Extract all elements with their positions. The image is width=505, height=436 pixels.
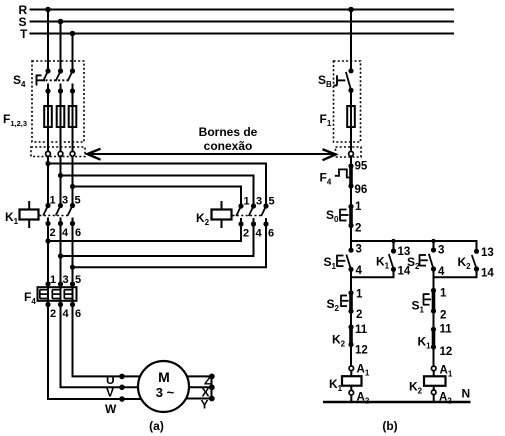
- switch SB manual actuator: [334, 75, 346, 85]
- node 12 (K1 NC bottom): [431, 344, 436, 349]
- aux contact K1 13-14 (NO): [391, 248, 396, 253]
- svg-text:5: 5: [75, 195, 81, 207]
- terminal L1: [46, 151, 51, 156]
- svg-text:T: T: [20, 27, 28, 41]
- node F4 pole3 top: [70, 281, 75, 286]
- svg-text:V: V: [106, 386, 114, 400]
- wire pole3 switch to fuse to terminal: [72, 91, 74, 187]
- junction node K2 return on L3: [70, 265, 75, 270]
- wire A2 to N: [350, 395, 352, 402]
- wire F4 to motor terminal V: [61, 305, 147, 388]
- terminal L3: [70, 151, 75, 156]
- node 2 (S1 NC bottom): [431, 308, 436, 313]
- node F4 pole3 bottom: [70, 302, 75, 307]
- svg-text:N: N: [462, 387, 471, 401]
- S2 plunger (right): [420, 254, 428, 266]
- wire pole2 switch to fuse to terminal: [60, 91, 62, 176]
- motor terminal U node: [119, 374, 125, 380]
- switch SB: [346, 68, 354, 93]
- node F4 pole1 top: [45, 281, 50, 286]
- svg-text:1: 1: [50, 274, 56, 286]
- S0 plunger: [340, 209, 349, 221]
- svg-text:2: 2: [50, 308, 56, 320]
- wire L1 terminal to K1 contact: [47, 164, 49, 206]
- node 4 (right branch): [431, 266, 436, 271]
- node 96: [348, 183, 353, 188]
- node branch L1 to K2: [45, 161, 50, 166]
- F4 heater element pole 3: [64, 290, 71, 299]
- annotation arrow Bornes de conexao: [87, 149, 335, 161]
- svg-text:2: 2: [243, 228, 249, 240]
- node 2 (S2 NC bottom): [348, 309, 353, 314]
- motor terminal W node: [119, 396, 125, 402]
- star bridge node Y: [209, 396, 215, 402]
- star bridge node Z: [209, 374, 215, 380]
- contactor K1 main contact pole 2: [56, 203, 63, 226]
- wire node4 down to S2: [350, 269, 352, 293]
- node F4 pole2 top: [58, 281, 63, 286]
- terminal A2 (K1 coil): [349, 390, 354, 395]
- junction node on rail T (phase 3 tap): [70, 31, 76, 37]
- node 1 (S0 top): [348, 204, 353, 209]
- wire SB to fuse F1 to terminal: [350, 90, 352, 166]
- switch S4 pole 3: [68, 68, 75, 93]
- svg-text:12: 12: [440, 346, 453, 358]
- svg-text:14: 14: [481, 268, 494, 280]
- power rail T: [30, 33, 455, 35]
- svg-text:1: 1: [356, 289, 363, 301]
- coil K2: [424, 376, 446, 386]
- terminal A1 (K2 coil): [431, 366, 436, 371]
- svg-text:3: 3: [356, 244, 362, 256]
- svg-text:6: 6: [75, 227, 81, 239]
- switch S4 manual actuator and linkage: [37, 75, 70, 86]
- motor M 3~: [138, 361, 189, 412]
- enclosure box (right, switch+fuse) dotted: [334, 61, 361, 142]
- wire A2 to N (right): [433, 395, 435, 402]
- interlock button S1 (NC, right branch): [432, 290, 436, 311]
- svg-text:1: 1: [355, 201, 362, 213]
- node 3 (right branch): [431, 247, 436, 252]
- node 11 (K1 NC top): [431, 327, 436, 332]
- svg-text:3 ~: 3 ~: [156, 385, 175, 400]
- star bridge node X: [209, 384, 215, 390]
- svg-text:Y: Y: [201, 398, 209, 412]
- wire motor to star-bridge Z: [180, 375, 212, 377]
- svg-text:3: 3: [62, 195, 68, 207]
- wire node4 down to S1 (right): [433, 269, 435, 290]
- wire 96 to S0: [350, 186, 352, 207]
- coil K1: [342, 376, 362, 386]
- S1 plunger: [337, 255, 345, 267]
- node 1 (S2 NC top): [348, 290, 353, 295]
- wire phase L1 drop from R to switch S4: [47, 10, 49, 72]
- stop button S0 (NC): [349, 207, 353, 226]
- switch S4 pole 1: [43, 68, 50, 93]
- svg-text:4: 4: [63, 308, 70, 320]
- svg-text:1: 1: [244, 196, 250, 208]
- contactor K2 main contact pole 1: [236, 203, 243, 226]
- power rail R: [30, 9, 455, 11]
- overload relay F4 body: [38, 287, 77, 301]
- svg-text:4: 4: [356, 265, 363, 277]
- svg-text:5: 5: [269, 196, 275, 208]
- wire L3 terminal to K1 contact: [72, 187, 74, 206]
- aux contact K2 13-14 (NO): [474, 249, 479, 254]
- fuse F1 (control): [347, 106, 355, 127]
- wire K2 aux rejoin: [434, 269, 477, 277]
- svg-text:2: 2: [440, 310, 446, 322]
- fuse F3 (pole 3): [69, 106, 77, 127]
- interlock button S2 (NC): [349, 293, 353, 311]
- wire coil K2 to A2: [433, 386, 435, 390]
- wire K2 pin2 return to L1: [48, 224, 241, 241]
- contactor K1 main contact pole 1: [43, 203, 50, 226]
- node 95: [348, 163, 353, 168]
- node 2 (S0 bottom): [348, 223, 353, 228]
- node branch L2 to K2: [58, 173, 63, 178]
- svg-text:M: M: [158, 369, 170, 385]
- wire K2 interlock to coil K1: [350, 345, 352, 367]
- wire K1 pole3 down to overload F4: [72, 224, 74, 285]
- svg-text:95: 95: [355, 161, 368, 173]
- fuse F1 (pole 1): [44, 106, 52, 127]
- start button S2 (NO, right branch): [429, 254, 434, 269]
- svg-text:6: 6: [75, 308, 81, 320]
- wire S2 to K2 interlock: [350, 311, 352, 327]
- svg-text:2: 2: [50, 227, 56, 239]
- contactor K2 main contact pole 2: [249, 203, 256, 226]
- wire pole1 switch to fuse to terminal: [47, 91, 49, 164]
- terminal strip (right) dotted: [336, 147, 362, 157]
- junction node on rail R (phase 1 tap): [45, 7, 51, 13]
- switch S4 pole 2: [56, 68, 63, 93]
- terminal L2: [58, 151, 63, 156]
- node 1 (S1 NC top): [431, 288, 436, 293]
- node 11 (K2 NC top): [348, 324, 353, 329]
- wire K2 pin4 return to L2: [61, 224, 254, 256]
- svg-text:3: 3: [438, 245, 444, 257]
- svg-text:6: 6: [268, 228, 274, 240]
- wire K1 pole2 down to overload F4: [60, 224, 62, 285]
- wire L1 to K2 contact 5: [48, 164, 266, 207]
- F4 heater element pole 2: [52, 290, 59, 299]
- svg-text:2: 2: [356, 309, 362, 321]
- node F4 pole2 bottom: [58, 302, 63, 307]
- wires through overload F4: [48, 284, 73, 305]
- svg-text:5: 5: [75, 274, 81, 286]
- svg-text:11: 11: [440, 324, 453, 336]
- interlock contact K2 11-12 (NC): [349, 327, 353, 345]
- wire motor to star-bridge Y: [180, 398, 212, 400]
- wire phase L3 drop from T to switch S4: [72, 34, 74, 72]
- wire L3 to K2 contact 1: [73, 187, 242, 207]
- svg-text:3: 3: [63, 274, 69, 286]
- wire L2 to K2 contact 3: [61, 176, 254, 207]
- wire phase L2 drop from S to switch S4: [60, 22, 62, 72]
- wire K1 aux rejoin: [351, 269, 394, 277]
- svg-text:1: 1: [50, 195, 56, 207]
- svg-text:13: 13: [481, 247, 494, 259]
- power rail S: [30, 21, 455, 23]
- node 4 (left branch): [348, 267, 353, 272]
- svg-text:4: 4: [62, 227, 69, 239]
- bus junction at K1 aux: [391, 239, 395, 243]
- neutral rail N: [323, 401, 471, 403]
- stub bus to right branch: [433, 241, 435, 250]
- svg-text:conexão: conexão: [204, 139, 253, 153]
- wire K1 interlock to coil K2: [433, 347, 435, 366]
- junction node on rail S (phase 2 tap): [58, 19, 64, 25]
- wire L2 terminal to K1 contact: [60, 176, 62, 206]
- wire A1 to coil K2: [433, 371, 435, 376]
- interlock contact K1 11-12 (NC): [432, 329, 436, 347]
- wire motor to star-bridge X: [182, 386, 212, 388]
- contactor K1 main contact pole 3: [68, 203, 75, 226]
- wire coil to A2: [350, 386, 352, 390]
- F4 trip actuator: [335, 169, 351, 177]
- contactor K2 actuator: [212, 201, 264, 228]
- svg-text:4: 4: [438, 266, 445, 278]
- motor terminal V node: [119, 385, 125, 391]
- terminal A1 (K1 coil): [349, 366, 354, 371]
- svg-text:2: 2: [355, 223, 361, 235]
- wire S1 to K1 interlock: [433, 311, 435, 329]
- terminal strip (left) dotted: [31, 147, 85, 157]
- node 12 (K2 NC bottom): [348, 342, 353, 347]
- svg-text:(b): (b): [382, 419, 397, 433]
- junction node on rail R (control circuit tap): [348, 7, 354, 13]
- contactor K1 actuator: [20, 201, 71, 228]
- wire control drop from R to switch SB: [350, 10, 352, 71]
- star point bridge wire: [211, 376, 213, 398]
- start button S1 (NO): [346, 255, 351, 270]
- contactor K2 main contact pole 3: [261, 203, 268, 226]
- terminal (control): [349, 151, 354, 156]
- svg-text:(a): (a): [149, 419, 164, 433]
- svg-text:96: 96: [355, 184, 368, 196]
- fuse F2 (pole 2): [57, 106, 65, 127]
- svg-text:1: 1: [440, 288, 447, 300]
- junction node K2 return on L2: [58, 253, 63, 258]
- terminal A2 (K2 coil): [431, 390, 436, 395]
- enclosure box (left, switch+fuses) dotted: [32, 61, 84, 142]
- node 3 (left branch): [348, 248, 353, 253]
- svg-text:11: 11: [355, 324, 368, 336]
- overload contact F4 95-96 (NC): [349, 166, 353, 186]
- wire A1 to coil: [350, 371, 352, 376]
- node F4 pole1 bottom: [45, 302, 50, 307]
- control bus wire: [351, 241, 477, 251]
- junction node K2 return on L1: [45, 238, 50, 243]
- svg-text:12: 12: [355, 345, 368, 357]
- svg-text:4: 4: [256, 228, 263, 240]
- bus junction at right branch: [431, 239, 435, 243]
- stub bus to K1 aux: [393, 241, 395, 251]
- wire S0 to bus: [350, 226, 352, 251]
- node branch L3 to K2: [70, 184, 75, 189]
- S2 plunger: [341, 295, 349, 307]
- wire K2 pin6 return to L3: [73, 224, 267, 267]
- F4 heater element pole 1: [40, 290, 47, 299]
- wire F4 to motor terminal W: [48, 305, 150, 400]
- S1 plunger (right): [424, 293, 432, 305]
- svg-text:W: W: [105, 402, 117, 416]
- wire F4 to motor terminal U: [73, 305, 147, 377]
- svg-text:Bornes de: Bornes de: [199, 125, 258, 139]
- wire K1 pole1 down to overload F4: [47, 224, 49, 285]
- svg-text:3: 3: [256, 196, 262, 208]
